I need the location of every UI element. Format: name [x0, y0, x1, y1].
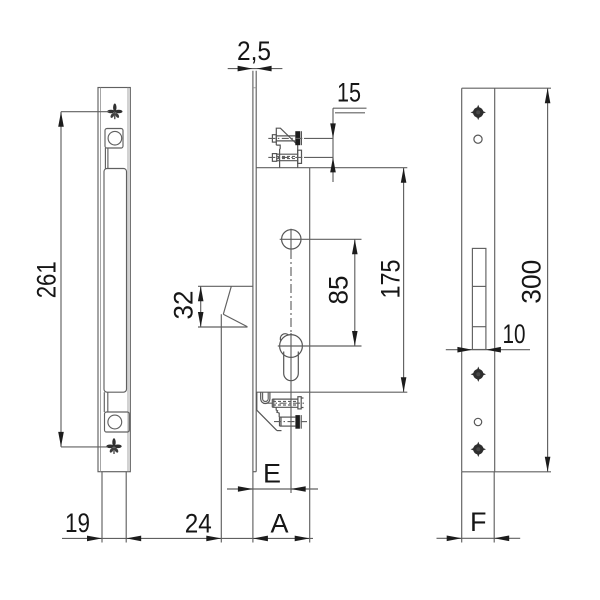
dimension 261 bottom extension line — [61, 446, 108, 448]
dimension 175 line — [403, 168, 405, 393]
follower hole circle — [282, 230, 301, 249]
svg-text:261: 261 — [32, 261, 62, 298]
svg-text:32: 32 — [169, 291, 199, 320]
latch bottom extension line — [198, 326, 248, 328]
extension line right under plate — [125, 472, 127, 543]
dimension 85 top arrow — [352, 239, 358, 254]
svg-text:24: 24 — [185, 509, 212, 539]
dimension 2,5 left arrow — [238, 66, 253, 72]
keeper slot divider 1 — [472, 285, 486, 287]
extension line left under plate — [461, 472, 463, 543]
top hook bracket — [276, 128, 297, 145]
top small hole — [474, 135, 482, 143]
dimension E left arrow — [238, 486, 253, 492]
dimension 85 bottom arrow — [352, 331, 358, 346]
dimension 261 line — [60, 112, 62, 447]
dimension E line — [227, 488, 318, 490]
body right edge extension to bottom dims — [309, 392, 311, 542]
top bolt black head — [295, 131, 300, 145]
dimension 10 left arrow — [457, 347, 472, 353]
second bolt right head — [298, 150, 302, 163]
dimension 15 up arrow — [330, 157, 336, 172]
dimension 32 top arrow — [198, 286, 204, 301]
bottom upper bolt head ticks — [301, 397, 303, 399]
dimension 85 top extension through circle — [280, 238, 362, 240]
dimension E right arrow — [291, 486, 306, 492]
dimension 32 bottom arrow — [198, 312, 204, 327]
bottom screw — [471, 442, 486, 457]
second bolt left head — [272, 154, 276, 162]
bottom fixing screw — [106, 438, 121, 454]
dimension 10 right arrow — [486, 347, 501, 353]
bottom lower bolt shaft — [280, 416, 296, 418]
dimension F left arrow — [447, 536, 462, 542]
bottom upper bolt right head — [298, 397, 301, 409]
channel lines below top box — [104, 148, 106, 169]
svg-text:300: 300 — [517, 260, 547, 304]
dimension 261 top extension line — [61, 111, 110, 113]
strike plate right edge — [494, 88, 496, 472]
second bolt dashed lines — [277, 155, 298, 157]
keeper slot divider 2 — [472, 326, 486, 328]
euro cylinder slot — [284, 352, 299, 381]
svg-text:2,5: 2,5 — [237, 36, 271, 66]
dimension 300 bottom arrow — [545, 457, 551, 472]
top roller box — [105, 129, 123, 149]
faceplate outer rectangle — [98, 88, 130, 472]
euro cylinder circle — [280, 335, 303, 358]
dimension 175 bottom arrow — [401, 377, 407, 392]
strike plate bottom edge with 300 extension — [462, 471, 551, 473]
top bolt axis extension to dim 15 — [304, 137, 333, 139]
bottom upper bolt dashed lines — [273, 400, 297, 402]
lock body right edge — [309, 168, 311, 393]
top bracket right leg — [297, 145, 299, 168]
bottom U clip outer — [261, 392, 270, 403]
svg-text:F: F — [470, 507, 487, 537]
bottom roller circle — [108, 415, 122, 429]
svg-text:85: 85 — [324, 276, 354, 305]
dimension 175 top arrow — [401, 168, 407, 183]
faceplate edge right line — [255, 71, 257, 472]
latch diagonal lower — [223, 314, 247, 327]
dimension 32 line — [200, 286, 202, 327]
dimension 2,5 right arrow — [257, 66, 272, 72]
top bolt axis dash-dot — [268, 137, 304, 139]
dim A right arrow — [295, 536, 310, 542]
svg-text:10: 10 — [503, 319, 526, 349]
bottom upper bolt axis dash-dot — [266, 402, 306, 404]
top screw — [471, 105, 486, 120]
bottom diagonal foot — [277, 430, 282, 432]
dimension 15 down arrow — [330, 123, 336, 138]
bottom dimension line 19 24 A — [62, 537, 313, 539]
dimension 2,5 line — [228, 68, 283, 70]
svg-text:19: 19 — [65, 508, 90, 538]
vertical centre line dash-dot — [290, 250, 292, 333]
vertical centre line lower — [290, 333, 292, 493]
bracket step between bolts — [276, 407, 279, 417]
dimension 261 bottom arrow — [58, 432, 64, 447]
channel lines above bottom box — [103, 392, 105, 412]
bottom lower bolt head right edge — [300, 415, 302, 429]
bottom roller box — [105, 412, 130, 432]
latch vertical extension to bottom dims — [220, 314, 222, 542]
top bracket notch — [276, 145, 280, 168]
middle screw — [471, 367, 486, 382]
faceplate bottom tick — [253, 471, 256, 473]
right view: strike plate front — [437, 88, 552, 542]
euro cylinder bump — [280, 334, 288, 341]
latch diagonal upper — [223, 286, 231, 314]
bottom left edge under body — [256, 392, 258, 410]
strike plate left edge — [461, 88, 463, 472]
faceplate inner edge line left — [99, 88, 101, 472]
top bolt head right edge — [300, 131, 302, 145]
faceplate inner edge line right — [127, 88, 129, 472]
dimension 261 top arrow — [58, 112, 64, 127]
keeper slot — [472, 248, 486, 349]
dim 24 left arrow — [206, 536, 221, 542]
extension line left under plate — [101, 472, 103, 543]
lock body top edge with 175 extension — [256, 167, 407, 169]
svg-text:175: 175 — [376, 260, 406, 299]
bottom lower bolt axis dash-dot — [274, 421, 295, 423]
second bolt shaft — [277, 153, 299, 155]
dimension F right arrow — [494, 536, 509, 542]
rod cover plate — [104, 169, 127, 393]
dimension 85 line — [354, 239, 356, 346]
bottom upper bolt shaft — [272, 398, 298, 400]
svg-text:E: E — [263, 459, 281, 489]
bottom small hole — [474, 418, 481, 425]
bottom lower bolt black head — [295, 415, 300, 429]
dim 19 left arrow — [87, 536, 102, 542]
dimension 300 top arrow — [545, 88, 551, 103]
svg-text:15: 15 — [337, 78, 361, 108]
dimension F line — [437, 537, 521, 539]
svg-text:A: A — [270, 509, 288, 539]
dimension 10 line — [446, 349, 530, 351]
dimension 15 leader top lines — [333, 107, 367, 109]
top fixing screw — [107, 104, 122, 120]
bottom upper bolt left end — [271, 399, 273, 407]
top bolt shaft — [276, 135, 295, 137]
second bolt axis dash-dot — [268, 156, 304, 158]
extension line right under plate — [493, 472, 495, 543]
latch top edge with 32 extension — [198, 285, 253, 287]
dimension 85 bottom extension through cylinder — [278, 345, 362, 347]
dimension 15 vertical line — [332, 108, 334, 182]
dim 24 right arrow — [253, 536, 268, 542]
strike plate top edge with 300 extension — [462, 87, 551, 89]
bottom U clip inner — [263, 392, 269, 401]
bottom lower bolt left end — [279, 417, 281, 426]
top roller circle — [108, 131, 122, 145]
dim 19 right arrow — [126, 536, 141, 542]
faceplate edge left line (extends to bottom dims) — [252, 71, 254, 543]
top bolt left head — [272, 135, 276, 142]
dimension 300 line — [547, 88, 549, 472]
second bolt axis extension to dim 15 — [304, 156, 333, 158]
vertical centre line upper — [290, 229, 292, 250]
left view: faceplate front — [32, 88, 131, 543]
lock body bottom edge with 175 extension — [256, 391, 407, 393]
middle view: lock body side — [62, 36, 407, 543]
bottom diagonal — [257, 410, 277, 430]
faceplate top tick — [253, 87, 256, 89]
